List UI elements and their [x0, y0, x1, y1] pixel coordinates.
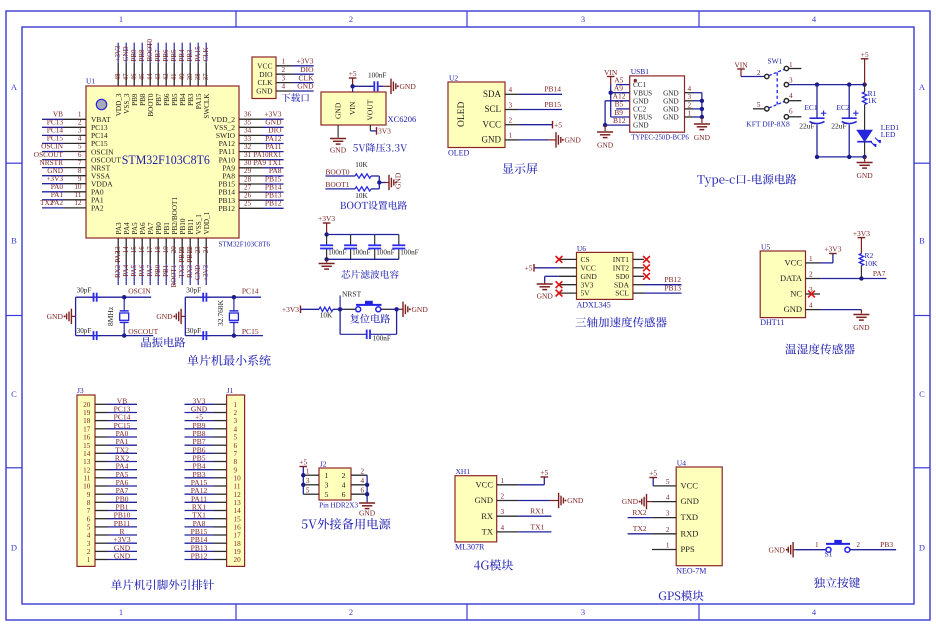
svg-text:37: 37: [202, 73, 210, 81]
4G VCC to +5: [518, 484, 544, 486]
svg-text:16: 16: [138, 246, 146, 254]
svg-text:S1: S1: [825, 550, 833, 559]
no-connect SD0: [643, 273, 650, 280]
svg-text:1: 1: [282, 58, 286, 66]
svg-text:J1: J1: [227, 386, 234, 395]
svg-text:3: 3: [234, 417, 238, 425]
svg-text:RXD: RXD: [681, 528, 699, 538]
svg-text:TX1: TX1: [531, 522, 545, 531]
svg-text:PA4: PA4: [122, 264, 130, 276]
svg-text:26: 26: [244, 192, 252, 200]
svg-text:TX2: TX2: [633, 524, 647, 533]
svg-text:VCC: VCC: [476, 479, 494, 489]
regulator GND pin to ground: [337, 125, 339, 138]
svg-text:PB5: PB5: [171, 93, 179, 106]
svg-text:16: 16: [83, 434, 91, 442]
power port +3V3 reset: [300, 306, 302, 314]
svg-text:27: 27: [244, 183, 252, 191]
svg-text:12: 12: [83, 466, 91, 474]
filter cap top bus: [327, 234, 399, 236]
svg-text:15: 15: [130, 246, 138, 254]
svg-text:SCL: SCL: [484, 104, 501, 114]
no-connect INT2: [643, 264, 650, 271]
svg-text:1: 1: [666, 542, 670, 550]
svg-text:PB12: PB12: [265, 199, 282, 208]
caption 4G module: [474, 559, 513, 570]
caption Type-c port power circuit: [697, 174, 796, 187]
svg-text:GND: GND: [334, 102, 343, 119]
svg-text:GND: GND: [156, 312, 173, 321]
OLED GND to ground: [519, 139, 548, 141]
crystal rail top: [185, 296, 261, 298]
svg-text:BOOT1: BOOT1: [170, 264, 178, 287]
svg-text:24: 24: [202, 246, 210, 254]
wire +5 to VIN and cap: [353, 85, 373, 87]
svg-text:43: 43: [154, 73, 162, 81]
svg-text:4: 4: [342, 481, 346, 490]
svg-text:CC1: CC1: [633, 81, 647, 89]
svg-text:OLED: OLED: [457, 102, 467, 127]
svg-text:C: C: [919, 389, 925, 399]
U1 left pins 1-12: [64, 118, 87, 120]
resistor 10K on BOOT1: [355, 187, 371, 191]
svg-text:PB9: PB9: [130, 49, 138, 62]
caption MCU pin breakout headers: [111, 579, 214, 590]
svg-text:30: 30: [244, 159, 252, 167]
svg-text:45: 45: [138, 73, 146, 81]
connector download port VCC DIO CLK GND: [252, 57, 276, 99]
svg-text:2: 2: [688, 101, 692, 109]
svg-text:100nF: 100nF: [373, 334, 391, 342]
GPS RXD wire to TX2: [628, 533, 652, 535]
svg-text:GND: GND: [537, 292, 554, 301]
svg-text:2: 2: [809, 271, 813, 279]
svg-text:6: 6: [234, 442, 238, 450]
svg-text:GND: GND: [394, 172, 403, 189]
svg-text:+3V3: +3V3: [853, 229, 870, 238]
svg-text:PB7: PB7: [154, 49, 162, 62]
svg-text:GND: GND: [663, 114, 679, 122]
svg-text:1: 1: [815, 541, 819, 549]
net label BOOT0 wire: [325, 175, 355, 177]
svg-text:+3V3: +3V3: [282, 305, 299, 314]
svg-text:4: 4: [509, 86, 513, 94]
svg-text:28: 28: [244, 175, 252, 183]
svg-text:PB14: PB14: [544, 85, 561, 94]
svg-text:BOOT0: BOOT0: [146, 38, 154, 61]
svg-text:OLED: OLED: [448, 149, 470, 158]
header J2 Pin HDR2X3: [319, 468, 351, 500]
svg-text:GND: GND: [359, 509, 376, 518]
svg-text:23: 23: [194, 246, 202, 254]
svg-text:30pF: 30pF: [77, 287, 92, 295]
svg-text:VBUS: VBUS: [633, 89, 652, 97]
svg-text:GND: GND: [47, 312, 64, 321]
switch mechanical link dashed: [776, 73, 778, 105]
svg-text:C: C: [11, 389, 17, 399]
svg-text:13: 13: [234, 499, 242, 507]
svg-text:8: 8: [87, 499, 91, 507]
svg-text:2: 2: [87, 548, 91, 556]
svg-text:5: 5: [87, 524, 91, 532]
svg-text:48: 48: [114, 73, 122, 81]
svg-text:5V: 5V: [581, 289, 591, 298]
svg-text:38: 38: [194, 73, 202, 81]
svg-text:2: 2: [349, 607, 353, 617]
svg-text:GND: GND: [622, 497, 639, 506]
switch SW1 top pole: [765, 74, 769, 78]
svg-text:+3V3: +3V3: [114, 45, 122, 62]
GPS TXD wire to RX2: [628, 517, 652, 519]
crystal 32.768K: [233, 297, 235, 311]
capacitor 100nF filter 1: [326, 235, 328, 246]
svg-text:3: 3: [581, 607, 585, 617]
svg-text:U5: U5: [761, 243, 770, 252]
svg-text:VIN: VIN: [734, 61, 748, 70]
filter rail ground: [326, 259, 328, 262]
svg-text:18: 18: [154, 246, 162, 254]
capacitor 100nF filter 4: [398, 235, 400, 246]
svg-text:VBUS: VBUS: [633, 114, 652, 122]
svg-text:7: 7: [87, 507, 91, 515]
svg-text:17: 17: [146, 246, 154, 254]
svg-text:RX1: RX1: [530, 507, 544, 516]
svg-text:PB3: PB3: [187, 93, 195, 106]
svg-text:GND: GND: [853, 323, 870, 332]
svg-text:32: 32: [244, 143, 252, 151]
svg-text:46: 46: [130, 73, 138, 81]
svg-text:DHT11: DHT11: [760, 318, 784, 327]
svg-text:12: 12: [234, 491, 242, 499]
svg-text:GND: GND: [114, 552, 131, 561]
svg-text:14: 14: [83, 450, 91, 458]
svg-text:39: 39: [186, 73, 194, 81]
caption chip filter capacitors: [341, 270, 399, 279]
svg-text:25: 25: [244, 200, 252, 208]
svg-text:GND: GND: [400, 82, 417, 91]
svg-text:6: 6: [87, 515, 91, 523]
svg-text:D: D: [919, 543, 925, 553]
svg-text:PC14: PC14: [242, 287, 259, 296]
resistor 10K reset pull-up: [319, 307, 333, 311]
svg-text:100nF: 100nF: [400, 249, 418, 257]
svg-text:47: 47: [122, 73, 130, 81]
svg-text:PB12: PB12: [218, 204, 235, 213]
svg-text:BOOT1: BOOT1: [325, 180, 349, 189]
ADXL SDA wire to PB12: [644, 284, 682, 286]
caption GPS module: [659, 590, 704, 601]
svg-text:TYPEC-250D-BCP6: TYPEC-250D-BCP6: [631, 134, 689, 142]
svg-text:4: 4: [78, 135, 82, 143]
svg-text:10: 10: [83, 483, 91, 491]
svg-text:2: 2: [509, 117, 513, 125]
svg-text:EC2: EC2: [836, 103, 850, 112]
caption 5V step-down 3.3V: [353, 143, 407, 152]
svg-text:PB3: PB3: [186, 49, 194, 62]
power rail bottom bus: [817, 156, 865, 158]
svg-text:OSCOUT: OSCOUT: [128, 327, 158, 336]
svg-text:D: D: [11, 543, 17, 553]
svg-text:41: 41: [170, 73, 178, 81]
svg-text:+5: +5: [525, 263, 533, 272]
wire B9 VBUS: [611, 116, 630, 118]
svg-text:PB10: PB10: [179, 218, 187, 234]
svg-text:PB4: PB4: [178, 49, 186, 62]
svg-text:20: 20: [83, 401, 91, 409]
svg-text:PB12: PB12: [191, 552, 208, 561]
BOOT junction to ground: [378, 176, 380, 189]
svg-text:GND: GND: [194, 265, 202, 280]
svg-text:PA5: PA5: [130, 264, 138, 276]
svg-text:SDA: SDA: [483, 89, 502, 99]
svg-text:PB6: PB6: [163, 93, 171, 106]
svg-text:RX3: RX3: [186, 264, 194, 278]
svg-text:PA2: PA2: [91, 204, 104, 213]
mcu U1 STM32F103C8T6 body: [86, 86, 239, 238]
reset bottom loop with 100nF: [339, 309, 341, 334]
wire A12 GND: [605, 100, 630, 102]
switch SW1 bottom pole: [765, 107, 769, 111]
capacitor 100nF filter 2: [350, 235, 352, 246]
svg-text:8: 8: [234, 458, 238, 466]
sensor U6 ADXL345: [577, 252, 633, 299]
svg-text:1: 1: [509, 132, 513, 140]
svg-text:1: 1: [306, 468, 310, 476]
svg-text:PB8: PB8: [138, 49, 146, 62]
svg-text:TX2: TX2: [40, 198, 54, 207]
svg-text:3: 3: [688, 93, 692, 101]
svg-text:4: 4: [501, 524, 505, 532]
svg-text:GND: GND: [330, 146, 347, 155]
svg-text:PA5: PA5: [131, 222, 139, 235]
svg-text:100nF: 100nF: [328, 249, 346, 257]
header J3: [77, 395, 95, 566]
power port +5 above regulator: [352, 78, 354, 86]
svg-text:9: 9: [234, 466, 238, 474]
ground tap left: [71, 315, 75, 317]
svg-text:PB6: PB6: [162, 49, 170, 62]
capacitor 100nF filter 3: [374, 235, 376, 246]
svg-text:U6: U6: [577, 244, 586, 253]
svg-text:3: 3: [87, 540, 91, 548]
svg-text:1: 1: [119, 607, 123, 617]
svg-text:19: 19: [234, 548, 242, 556]
svg-text:RX2: RX2: [114, 264, 122, 278]
svg-text:PB1: PB1: [163, 222, 171, 235]
svg-text:2: 2: [282, 66, 286, 74]
svg-text:PB1: PB1: [162, 264, 170, 277]
svg-text:30pF: 30pF: [77, 327, 92, 335]
svg-text:ML307R: ML307R: [455, 543, 485, 552]
svg-text:B: B: [11, 236, 17, 246]
svg-text:4: 4: [282, 83, 286, 91]
svg-text:STM32F103C8T6: STM32F103C8T6: [219, 240, 271, 249]
svg-text:31: 31: [244, 151, 252, 159]
svg-text:EC1: EC1: [804, 103, 818, 112]
svg-text:PB5: PB5: [170, 49, 178, 62]
svg-text:1: 1: [501, 477, 505, 485]
svg-text:NRST: NRST: [342, 290, 362, 299]
cap 30pF bottom: [199, 335, 203, 337]
wire A9 VBUS: [611, 92, 630, 94]
svg-text:PC15: PC15: [242, 327, 259, 336]
svg-text:GND: GND: [663, 89, 679, 97]
svg-text:4: 4: [87, 532, 91, 540]
svg-text:PB2/BOOT1: PB2/BOOT1: [171, 197, 179, 235]
svg-text:5: 5: [78, 143, 82, 151]
svg-text:3: 3: [789, 76, 793, 84]
svg-text:30pF: 30pF: [186, 287, 201, 295]
svg-text:GND: GND: [475, 495, 493, 505]
svg-text:PB7: PB7: [155, 93, 163, 106]
cap 30pF top: [199, 296, 203, 298]
svg-text:22uF: 22uF: [831, 122, 846, 131]
svg-text:2: 2: [361, 468, 365, 476]
crystal rail top: [76, 296, 152, 298]
svg-text:U2: U2: [449, 73, 458, 82]
svg-text:+5: +5: [649, 469, 657, 478]
DHT11 VCC to +3V3: [820, 262, 833, 264]
svg-text:5: 5: [306, 487, 310, 495]
svg-text:A: A: [11, 82, 18, 92]
svg-text:6: 6: [789, 108, 793, 116]
4G GND to ground: [518, 500, 550, 502]
svg-text:2: 2: [234, 409, 238, 417]
4G TX wire to TX1: [518, 531, 551, 533]
svg-text:STM32F103C8T6: STM32F103C8T6: [122, 153, 210, 167]
svg-text:7: 7: [234, 450, 238, 458]
svg-text:TX3: TX3: [178, 264, 186, 277]
svg-text:11: 11: [75, 191, 82, 199]
caption MCU minimal system: [187, 355, 270, 366]
switch output wire to power rail: [789, 84, 865, 86]
svg-text:PA15: PA15: [194, 46, 202, 62]
svg-text:GND: GND: [122, 46, 130, 61]
crystal rail bottom: [76, 335, 154, 337]
svg-text:GND: GND: [856, 171, 873, 180]
module XH1 ML307R: [455, 476, 497, 542]
net label NRST: [339, 296, 341, 310]
svg-text:OSCIN: OSCIN: [128, 287, 151, 296]
OLED VCC to +5: [519, 124, 553, 126]
svg-text:5: 5: [234, 434, 238, 442]
svg-text:1: 1: [87, 556, 91, 564]
svg-text:BOOT0: BOOT0: [325, 167, 349, 176]
svg-text:GND: GND: [769, 545, 786, 554]
svg-text:5: 5: [325, 490, 329, 499]
no-connect CS: [556, 256, 563, 263]
caption independent button: [814, 577, 860, 588]
svg-text:+3V3: +3V3: [202, 264, 210, 281]
svg-text:B12: B12: [613, 116, 626, 125]
caption download port: [281, 93, 309, 102]
svg-text:17: 17: [234, 532, 242, 540]
svg-text:PB4: PB4: [179, 93, 187, 106]
svg-text:U1: U1: [86, 77, 95, 86]
connector USB1 TYPEC body: [630, 76, 685, 132]
svg-text:GND: GND: [694, 133, 711, 142]
svg-text:J3: J3: [77, 386, 84, 395]
svg-text:GND: GND: [565, 136, 582, 145]
svg-text:36: 36: [244, 111, 252, 119]
svg-text:DATA: DATA: [780, 273, 803, 283]
svg-text:XH1: XH1: [456, 467, 471, 476]
svg-text:1: 1: [789, 61, 793, 69]
svg-text:PA3: PA3: [115, 222, 123, 235]
USB1 right GND pins bus: [685, 92, 694, 94]
svg-text:B: B: [919, 236, 925, 246]
svg-text:8MHz: 8MHz: [106, 306, 115, 326]
svg-text:20: 20: [234, 556, 242, 564]
svg-text:10K: 10K: [865, 259, 879, 268]
svg-text:CLK: CLK: [202, 48, 210, 62]
crystal rail bottom: [185, 335, 263, 337]
svg-text:USB1: USB1: [631, 67, 650, 76]
svg-text:SW1: SW1: [768, 56, 783, 65]
svg-text:GND: GND: [482, 135, 502, 145]
svg-text:33: 33: [244, 135, 252, 143]
svg-text:VCC: VCC: [482, 119, 501, 129]
svg-text:12: 12: [74, 199, 82, 207]
ADXL VCC to +5: [534, 267, 559, 269]
wire button to ground: [381, 308, 390, 310]
resistor R1 1K: [864, 85, 866, 92]
no-connect 3V3: [556, 281, 563, 288]
svg-text:+5: +5: [299, 458, 307, 467]
svg-text:5: 5: [757, 101, 761, 109]
electrolytic cap EC1 22uF: [816, 85, 818, 119]
svg-text:4: 4: [234, 425, 238, 433]
GPS VCC to +5: [652, 478, 654, 486]
svg-text:RX2: RX2: [632, 508, 646, 517]
svg-text:GND: GND: [597, 141, 614, 150]
svg-text:3: 3: [581, 14, 585, 24]
header J1: [227, 395, 245, 566]
svg-text:RX: RX: [481, 511, 493, 521]
svg-text:GND: GND: [567, 496, 584, 505]
svg-text:GND: GND: [663, 106, 679, 114]
caption triaxial accelerometer: [575, 317, 666, 328]
svg-text:1: 1: [119, 14, 123, 24]
OLED SCL wire to PB15: [519, 109, 562, 111]
svg-text:2: 2: [856, 541, 860, 549]
caption BOOT setting circuit: [340, 201, 407, 210]
svg-text:1: 1: [809, 255, 813, 263]
svg-text:4: 4: [688, 85, 692, 93]
svg-text:PB15: PB15: [544, 100, 561, 109]
svg-text:18: 18: [234, 540, 242, 548]
caption temperature humidity sensor: [785, 344, 855, 355]
caption 5V external backup power: [302, 518, 391, 529]
caption display screen: [503, 163, 538, 174]
svg-text:22uF: 22uF: [799, 122, 814, 131]
svg-text:VCC: VCC: [681, 481, 699, 491]
svg-text:KFT DIP-8X8: KFT DIP-8X8: [746, 120, 790, 129]
svg-text:42: 42: [162, 73, 170, 81]
svg-text:32.768K: 32.768K: [216, 299, 225, 326]
svg-text:PPS: PPS: [681, 544, 695, 554]
svg-text:PA15: PA15: [195, 93, 203, 109]
svg-text:4: 4: [361, 477, 365, 485]
svg-text:6: 6: [78, 151, 82, 159]
svg-text:XC6206: XC6206: [388, 114, 417, 124]
svg-text:SWCLK: SWCLK: [203, 93, 211, 119]
svg-text:11: 11: [83, 474, 90, 482]
svg-text:6: 6: [342, 490, 346, 499]
left GND bus of USB1: [604, 101, 606, 125]
svg-text:14: 14: [234, 507, 242, 515]
ADXL SCL wire to PB13: [644, 292, 682, 294]
